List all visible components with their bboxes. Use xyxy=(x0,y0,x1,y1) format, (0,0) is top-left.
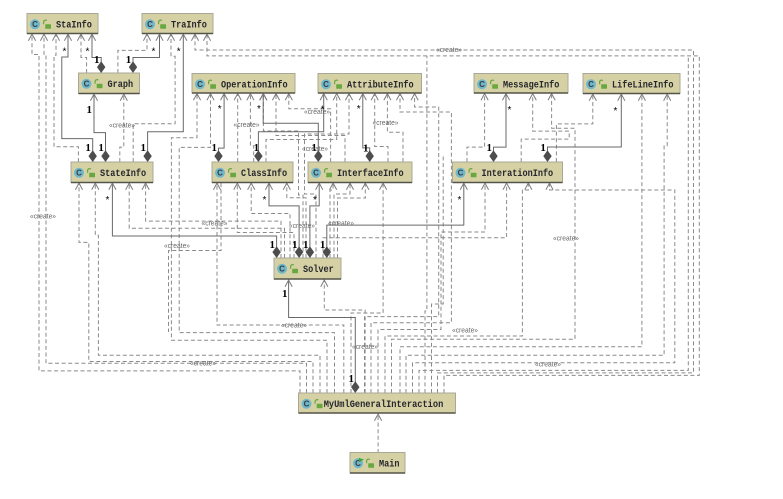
dependency edge InterationInfo creates MessageInfo xyxy=(467,93,485,162)
owner diamond of StateInfo owns TraInfo xyxy=(143,150,151,162)
arrowhead of ClassInfo creates AttributeInfo xyxy=(333,94,340,101)
svg-text:C: C xyxy=(32,20,38,29)
svg-text:1: 1 xyxy=(270,239,276,251)
arrowhead of MyUmlGeneralInteraction creates ClassInfo xyxy=(213,183,220,190)
dependency edge MyUmlGeneralInteraction creates TraInfo xyxy=(195,34,694,394)
composition edge Solver owns StateInfo xyxy=(112,183,276,259)
owner diamond of ClassInfo owns AttributeInfo xyxy=(254,150,262,162)
owner diamond of Solver owns StateInfo xyxy=(272,246,280,258)
class box Graph xyxy=(79,73,140,94)
arrowhead of Solver creates AttributeInfo xyxy=(345,94,352,101)
composition edge InterationInfo owns LifeLineInfo xyxy=(548,94,622,163)
svg-text:«create»: «create» xyxy=(164,243,190,250)
arrowhead of MyUmlGeneralInteraction creates AttributeInfo xyxy=(396,94,403,101)
member-end arrowhead of StateInfo owns Graph xyxy=(90,94,97,101)
svg-text:*: * xyxy=(177,47,181,58)
svg-text:AttributeInfo: AttributeInfo xyxy=(347,80,414,92)
dependency edge InterationInfo creates MessageInfo (2) xyxy=(521,93,569,162)
svg-text:StaInfo: StaInfo xyxy=(56,20,92,32)
arrowhead of Solver creates OperationInfo xyxy=(260,94,267,101)
member-end arrowhead of ClassInfo owns AttributeInfo xyxy=(320,94,327,101)
svg-text:Main: Main xyxy=(379,459,399,471)
svg-text:«create»: «create» xyxy=(109,123,135,130)
composition edge StateInfo owns Graph xyxy=(94,94,106,163)
svg-text:InterationInfo: InterationInfo xyxy=(482,168,554,180)
class box MessageInfo xyxy=(474,74,568,94)
dependency edge MyUmlGeneralInteraction creates MessageInfo xyxy=(392,93,576,393)
svg-text:1: 1 xyxy=(126,54,132,66)
wire ClassInfo lower-left bundle xyxy=(169,183,222,332)
dependency edge Graph creates StaInfo xyxy=(81,34,87,74)
member-end arrowhead of ClassInfo owns OperationInfo xyxy=(221,94,228,101)
dependency edge Solver creates InterfaceInfo xyxy=(330,183,333,259)
arrowhead of StateInfo creates Graph xyxy=(120,94,127,101)
arrowhead of MyUmlGeneralInteraction creates StateInfo xyxy=(75,183,82,190)
dependency edge MyUmlGeneralInteraction creates AttributeInfo (2) xyxy=(365,93,439,393)
svg-text:ClassInfo: ClassInfo xyxy=(241,168,287,180)
svg-text:C: C xyxy=(76,169,82,178)
svg-text:«create»: «create» xyxy=(304,109,330,116)
svg-text:1: 1 xyxy=(94,54,100,66)
wire right bundle stub 2 xyxy=(432,155,444,393)
composition edge InterfaceInfo owns AttributeInfo xyxy=(363,93,370,162)
svg-text:1: 1 xyxy=(87,104,93,116)
composition edge ClassInfo owns AttributeInfo xyxy=(258,93,323,162)
arrowhead of MyUmlGeneralInteraction creates AttributeInfo (2) xyxy=(411,94,418,101)
dependency edge MyUmlGeneralInteraction creates OperationInfo (2) xyxy=(179,93,334,393)
class box StateInfo xyxy=(71,162,153,183)
svg-text:*: * xyxy=(263,195,267,206)
dependency edge InterfaceInfo creates AttributeInfo (2) xyxy=(387,93,403,162)
arrowhead of InterfaceInfo creates AttributeInfo xyxy=(371,94,378,101)
svg-text:«create»: «create» xyxy=(190,361,216,368)
dependency edge ClassInfo creates OperationInfo xyxy=(237,93,239,162)
svg-text:«create»: «create» xyxy=(436,47,462,54)
member-end arrowhead of Graph owns TraInfo xyxy=(156,34,163,41)
owner diamond of ClassInfo owns OperationInfo xyxy=(214,150,222,162)
svg-text:1: 1 xyxy=(487,142,493,154)
composition edge Graph owns StaInfo xyxy=(92,34,101,74)
dependency edge MyUmlGeneralInteraction creates Solver xyxy=(324,280,365,394)
svg-text:«create»: «create» xyxy=(234,122,260,129)
owner diamond of Solver owns InterationInfo xyxy=(323,246,331,258)
arrowhead of Solver creates InterfaceInfo xyxy=(330,183,337,190)
svg-text:1: 1 xyxy=(85,142,91,154)
svg-text:«create»: «create» xyxy=(289,223,315,230)
member-end arrowhead of InterationInfo owns MessageInfo xyxy=(502,94,509,101)
arrowhead of MyUmlGeneralInteraction creates LifeLineInfo (2) xyxy=(664,94,671,101)
arrowhead of Solver creates ClassInfo (3) xyxy=(283,183,290,190)
class box LifeLineInfo xyxy=(583,74,680,94)
arrowhead of MyUmlGeneralInteraction creates StateInfo (2) xyxy=(92,183,99,190)
svg-text:«create»: «create» xyxy=(30,214,56,221)
dependency edge ClassInfo creates AttributeInfo xyxy=(266,93,337,162)
svg-text:1: 1 xyxy=(303,239,309,251)
svg-text:Solver: Solver xyxy=(303,264,334,276)
class box TraInfo xyxy=(142,14,213,34)
svg-text:C: C xyxy=(147,20,153,29)
dependency edge MyUmlGeneralInteraction creates StateInfo (2) xyxy=(95,183,320,394)
dependency edge MyUmlGeneralInteraction creates InterationInfo (3) xyxy=(413,183,675,394)
arrowhead of StateInfo creates StaInfo xyxy=(52,34,59,41)
dependency edge Solver creates StaInfo xyxy=(32,34,300,394)
dependency edge Graph creates TraInfo xyxy=(118,34,147,74)
svg-text:1: 1 xyxy=(349,373,355,385)
arrowhead of InterfaceInfo creates OperationInfo xyxy=(272,94,279,101)
arrowhead of Graph creates StaInfo xyxy=(77,34,84,41)
svg-text:«create»: «create» xyxy=(202,221,228,228)
arrowhead of MyUmlGeneralInteraction creates OperationInfo (2) xyxy=(207,94,214,101)
class box InterfaceInfo xyxy=(308,162,412,183)
svg-text:1: 1 xyxy=(363,143,369,155)
owner diamond of InterfaceInfo owns AttributeInfo xyxy=(366,150,374,162)
member-end arrowhead of Solver owns ClassInfo xyxy=(265,183,272,190)
dependency edge Main creates MyUmlGeneralInteraction xyxy=(377,414,379,454)
svg-text:*: * xyxy=(313,195,317,206)
owner diamond of StateInfo owns Graph xyxy=(101,150,109,162)
class box MyUmlGeneralInteraction xyxy=(299,393,456,413)
dependency edge InterfaceInfo creates OperationInfo (2) xyxy=(289,93,331,162)
svg-text:«create»: «create» xyxy=(553,236,579,243)
arrowhead of InterationInfo creates MessageInfo xyxy=(481,94,488,101)
svg-text:1: 1 xyxy=(292,239,298,251)
owner diamond of MyUmlGeneralInteraction owns Solver xyxy=(351,381,359,393)
arrowhead of MyUmlGeneralInteraction creates LifeLineInfo xyxy=(638,94,645,101)
member-end arrowhead of Solver owns StateInfo xyxy=(109,183,116,190)
svg-text:Graph: Graph xyxy=(108,79,134,91)
dependency edge StateInfo creates TraInfo xyxy=(133,34,175,163)
dependency edge Solver creates ClassInfo (3) xyxy=(287,183,306,259)
composition edge InterationInfo owns MessageInfo xyxy=(494,93,507,162)
member-end arrowhead of InterationInfo owns LifeLineInfo xyxy=(618,94,625,101)
svg-text:1: 1 xyxy=(320,239,326,251)
svg-text:1: 1 xyxy=(540,142,546,154)
svg-text:C: C xyxy=(313,169,319,178)
owner diamond of Graph owns TraInfo xyxy=(129,61,137,73)
class box AttributeInfo xyxy=(318,74,422,94)
owner diamond of StateInfo owns StaInfo xyxy=(89,150,97,162)
svg-text:«create»: «create» xyxy=(452,328,478,335)
owner diamond of Graph owns StaInfo xyxy=(97,61,105,73)
svg-text:«create»: «create» xyxy=(535,362,561,369)
dependency edge MyUmlGeneralInteraction creates AttributeInfo xyxy=(371,93,451,393)
dependency edge MyUmlGeneralInteraction creates LifeLineInfo xyxy=(400,94,642,394)
svg-text:*: * xyxy=(508,105,512,116)
arrowhead of MyUmlGeneralInteraction creates TraInfo xyxy=(191,34,198,41)
svg-text:MessageInfo: MessageInfo xyxy=(503,80,559,92)
svg-text:«create»: «create» xyxy=(328,221,354,228)
dependency edge MyUmlGeneralInteraction creates LifeLineInfo (2) xyxy=(406,94,667,394)
member-end arrowhead of StateInfo owns StaInfo xyxy=(64,34,71,41)
arrowhead of InterfaceInfo creates OperationInfo (2) xyxy=(285,94,292,101)
arrowhead of Solver creates ClassInfo xyxy=(234,183,241,190)
member-end arrowhead of Solver owns InterationInfo xyxy=(460,183,467,190)
dependency edge Solver creates OperationInfo xyxy=(263,93,303,258)
arrowhead of MyUmlGeneralInteraction creates InterationInfo (2) xyxy=(525,183,532,190)
composition edge Solver owns InterationInfo xyxy=(327,183,464,259)
dependency edge InterfaceInfo creates AttributeInfo xyxy=(375,93,388,162)
member-end arrowhead of Graph owns StaInfo xyxy=(88,34,95,41)
arrowhead of StateInfo creates TraInfo xyxy=(167,34,174,41)
dependency edge MyUmlGeneralInteraction creates StateInfo xyxy=(79,183,313,394)
composition edge ClassInfo owns OperationInfo xyxy=(219,93,225,162)
class box ClassInfo xyxy=(212,162,293,183)
class box InterationInfo xyxy=(453,162,563,183)
svg-text:«create»: «create» xyxy=(302,146,328,153)
class box StaInfo xyxy=(27,14,98,34)
svg-text:«create»: «create» xyxy=(281,323,307,330)
class box Solver xyxy=(274,258,341,279)
dependency edge Solver creates StateInfo (2) xyxy=(146,183,281,259)
member-end arrowhead of StateInfo owns TraInfo xyxy=(180,34,187,41)
owner diamond of Solver owns ClassInfo xyxy=(295,246,303,258)
arrowhead of Solver creates ClassInfo (2) xyxy=(248,183,255,190)
dependency edge Solver creates InterationInfo xyxy=(323,183,507,259)
svg-text:LifeLineInfo: LifeLineInfo xyxy=(612,80,673,92)
svg-text:*: * xyxy=(63,47,67,58)
svg-text:*: * xyxy=(106,195,110,206)
svg-text:*: * xyxy=(218,104,222,115)
svg-text:*: * xyxy=(257,104,261,115)
arrowhead of ClassInfo creates OperationInfo (2) xyxy=(247,94,254,101)
dependency edge Solver creates ClassInfo (2) xyxy=(251,183,290,259)
arrowhead of InterationInfo creates LifeLineInfo xyxy=(589,94,596,101)
composition edge MyUmlGeneralInteraction owns Solver xyxy=(289,280,356,394)
arrowhead of MyUmlGeneralInteraction creates InterationInfo xyxy=(481,183,488,190)
dependency edge Solver creates StateInfo xyxy=(129,183,284,259)
wire right outer bundle to top loop xyxy=(419,56,688,393)
svg-text:*: * xyxy=(614,106,618,117)
svg-text:C: C xyxy=(458,169,464,178)
svg-text:C: C xyxy=(588,80,594,89)
composition edge StateInfo owns TraInfo xyxy=(148,34,184,163)
svg-text:C: C xyxy=(323,80,329,89)
arrowhead of Solver creates StateInfo (2) xyxy=(142,183,149,190)
dependency edge MyUmlGeneralInteraction creates StaInfo xyxy=(44,34,307,394)
arrowhead of ClassInfo creates OperationInfo xyxy=(234,94,241,101)
dependency edge InterfaceInfo creates OperationInfo xyxy=(276,93,345,162)
dependency edge Solver creates TraInfo (outer loop) xyxy=(207,34,699,394)
arrowhead of MyUmlGeneralInteraction creates MessageInfo xyxy=(548,94,555,101)
svg-text:MyUmlGeneralInteraction: MyUmlGeneralInteraction xyxy=(324,399,444,411)
composition edge StateInfo owns StaInfo xyxy=(62,34,93,163)
dependency edge Solver creates ClassInfo xyxy=(237,183,294,259)
owner diamond of InterationInfo owns MessageInfo xyxy=(489,150,497,162)
arrowhead of MyUmlGeneralInteraction creates StaInfo xyxy=(40,34,47,41)
composition edge Solver owns ClassInfo xyxy=(269,183,299,259)
arrowhead of MyUmlGeneralInteraction creates OperationInfo xyxy=(193,94,200,101)
svg-text:TraInfo: TraInfo xyxy=(171,20,207,32)
arrowhead of Graph creates TraInfo xyxy=(143,34,150,41)
svg-text:1: 1 xyxy=(212,142,218,154)
arrowhead of Solver creates StaInfo xyxy=(28,34,35,41)
svg-text:C: C xyxy=(304,400,310,409)
svg-text:StateInfo: StateInfo xyxy=(100,168,146,180)
svg-text:*: * xyxy=(86,47,90,58)
arrowhead of InterationInfo creates MessageInfo (2) xyxy=(529,94,536,101)
dependency edge MyUmlGeneralInteraction creates InterationInfo (2) xyxy=(385,183,528,394)
arrowhead of Solver creates InterfaceInfo (3) xyxy=(362,183,369,190)
dependency edge Solver creates AttributeInfo xyxy=(305,93,350,258)
dependency edge ClassInfo creates OperationInfo (2) xyxy=(250,93,253,162)
svg-text:*: * xyxy=(357,104,361,115)
dependency edge MyUmlGeneralInteraction creates InterfaceInfo xyxy=(351,183,383,394)
dependency edge StateInfo creates StaInfo xyxy=(54,34,78,163)
arrowhead of Solver creates TraInfo (outer loop) xyxy=(203,34,210,41)
svg-text:1: 1 xyxy=(254,142,260,154)
arrowhead of Solver creates StateInfo xyxy=(126,183,133,190)
arrowhead of MyUmlGeneralInteraction creates InterationInfo (3) xyxy=(546,183,553,190)
svg-text:InterfaceInfo: InterfaceInfo xyxy=(337,168,404,180)
dependency edge InterationInfo creates LifeLineInfo xyxy=(556,94,592,163)
svg-text:C: C xyxy=(479,80,485,89)
svg-text:*: * xyxy=(152,47,156,58)
composition edge InterfaceInfo owns OperationInfo xyxy=(263,93,318,162)
member-end arrowhead of InterfaceInfo owns OperationInfo xyxy=(260,94,267,101)
owner diamond of InterfaceInfo owns OperationInfo xyxy=(314,150,322,162)
arrowhead of MyUmlGeneralInteraction creates Solver xyxy=(321,280,328,287)
svg-text:«create»: «create» xyxy=(373,120,399,127)
composition edge Solver owns InterfaceInfo xyxy=(310,183,319,259)
dependency edge StateInfo creates Graph xyxy=(120,94,124,163)
svg-text:1: 1 xyxy=(282,288,288,300)
svg-text:C: C xyxy=(197,80,203,89)
svg-text:C: C xyxy=(279,265,285,274)
svg-text:«create»: «create» xyxy=(352,344,378,351)
dependency edge MyUmlGeneralInteraction creates ClassInfo xyxy=(217,183,344,394)
arrowhead of Solver creates InterfaceInfo (2) xyxy=(346,183,353,190)
arrowhead of Solver creates InterationInfo xyxy=(503,183,510,190)
dependency edge MyUmlGeneralInteraction creates OperationInfo xyxy=(171,93,327,393)
owner diamond of Solver owns InterfaceInfo xyxy=(306,246,314,258)
dependency edge Solver creates InterfaceInfo (3) xyxy=(338,183,366,259)
composition edge Graph owns TraInfo xyxy=(133,34,160,74)
owner diamond of InterationInfo owns LifeLineInfo xyxy=(543,150,551,162)
svg-text:*: * xyxy=(458,195,462,206)
arrowhead of MyUmlGeneralInteraction creates InterfaceInfo xyxy=(380,183,387,190)
member-end arrowhead of Solver owns InterfaceInfo xyxy=(316,183,323,190)
svg-text:C: C xyxy=(84,80,90,89)
svg-text:1: 1 xyxy=(98,142,104,154)
arrowhead of Main creates MyUmlGeneralInteraction xyxy=(375,414,382,421)
dependency edge MyUmlGeneralInteraction creates InterationInfo xyxy=(378,183,485,394)
svg-text:C: C xyxy=(217,169,223,178)
arrowhead of InterfaceInfo creates AttributeInfo (2) xyxy=(384,94,391,101)
class box Main xyxy=(350,453,405,474)
dependency edge Solver creates InterfaceInfo (2) xyxy=(334,183,350,259)
member-end arrowhead of MyUmlGeneralInteraction owns Solver xyxy=(285,280,292,287)
svg-text:OperationInfo: OperationInfo xyxy=(221,80,288,92)
wire right bundle stub 1 xyxy=(425,56,427,393)
member-end arrowhead of InterfaceInfo owns AttributeInfo xyxy=(359,94,366,101)
class box OperationInfo xyxy=(192,74,295,94)
svg-text:1: 1 xyxy=(141,142,147,154)
